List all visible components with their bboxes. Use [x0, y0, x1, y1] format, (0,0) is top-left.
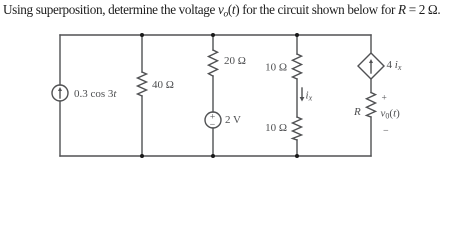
node dot top 40ohm	[140, 33, 144, 37]
wire left branch upper	[59, 35, 61, 85]
dependent source arrow	[370, 62, 372, 73]
node dot bottom 20ohm	[211, 154, 215, 158]
wire right branch upper	[370, 35, 372, 53]
svg-text:4 ix: 4 ix	[387, 59, 402, 72]
wire mid 10ohm branch	[296, 79, 298, 117]
node dot bottom 40ohm	[140, 154, 144, 158]
current source I1 arrow	[59, 90, 61, 98]
svg-text:Using superposition, determine: Using superposition, determine the volta…	[3, 2, 440, 20]
wire 10ohm branch lower	[296, 140, 298, 156]
resistor R	[367, 93, 376, 118]
svg-text:+: +	[382, 94, 387, 104]
node dot top 20ohm	[211, 33, 215, 37]
wire bottom	[60, 155, 371, 157]
wire between diamond and R	[370, 79, 372, 93]
wire 20ohm branch upper	[212, 35, 214, 50]
wire below 2V source	[212, 128, 214, 156]
svg-text:10 Ω: 10 Ω	[265, 62, 287, 74]
svg-text:−: −	[383, 126, 389, 137]
wire top	[60, 34, 371, 36]
svg-text:2 V: 2 V	[225, 114, 241, 126]
dependent source 4ix diamond	[358, 53, 384, 79]
resistor 40ohm	[138, 72, 147, 96]
svg-text:20 Ω: 20 Ω	[224, 55, 246, 67]
svg-text:v0(t): v0(t)	[381, 108, 401, 121]
wire below R	[370, 117, 372, 156]
node dot bottom 10ohm	[295, 154, 299, 158]
node dot top 10ohm	[295, 33, 299, 37]
voltage source 2V circle	[205, 112, 221, 128]
resistor 10ohm lower	[293, 117, 302, 140]
current source I1 circle	[52, 85, 68, 101]
wire left branch lower	[59, 101, 61, 156]
resistor 20ohm	[209, 50, 218, 76]
wire 40ohm branch upper	[141, 35, 143, 72]
svg-text:10 Ω: 10 Ω	[265, 122, 287, 134]
current arrow ix	[301, 88, 303, 98]
svg-text:−: −	[210, 120, 216, 131]
svg-text:0.3 cos 3t: 0.3 cos 3t	[74, 88, 117, 100]
wire 40ohm branch lower	[141, 96, 143, 156]
wire between 20ohm and 2V source	[212, 76, 214, 112]
svg-text:R: R	[353, 106, 361, 118]
svg-text:ix: ix	[306, 90, 313, 103]
svg-text:40 Ω: 40 Ω	[152, 79, 174, 91]
wire 10ohm branch upper	[296, 35, 298, 54]
resistor 10ohm upper	[293, 54, 302, 79]
